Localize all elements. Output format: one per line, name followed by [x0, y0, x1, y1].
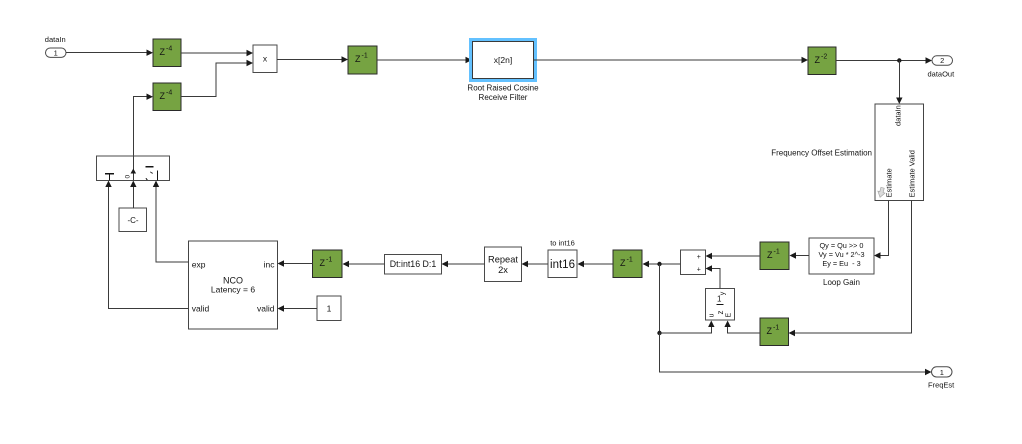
svg-text:E: E	[726, 313, 733, 318]
svg-text:Z: Z	[767, 326, 773, 336]
product block x	[253, 45, 277, 73]
gain block Loop Gain	[809, 238, 874, 287]
svg-text:1: 1	[940, 368, 944, 377]
wire product to Z-1	[277, 56, 348, 62]
svg-text:Vy = Vu * 2^-3: Vy = Vu * 2^-3	[818, 250, 864, 259]
svg-text:Estimate Valid: Estimate Valid	[907, 150, 916, 197]
wire FOE Estimate to Loop Gain	[874, 201, 889, 259]
wire -C- to switch in2	[130, 181, 136, 209]
constant -C-	[119, 208, 147, 232]
svg-text:Latency = 6: Latency = 6	[211, 285, 255, 295]
svg-text:exp: exp	[192, 260, 206, 270]
svg-text:to int16: to int16	[550, 239, 575, 248]
subsystem Frequency Offset Estimation	[771, 104, 923, 201]
wire switch output to Z-4b	[133, 94, 153, 157]
delay Z-2	[808, 47, 836, 75]
wire constant 1 to NCO valid	[278, 305, 318, 311]
outport 1 FreqEst	[928, 367, 955, 390]
svg-text:-1: -1	[774, 249, 780, 256]
wire junction down to lower junction	[659, 264, 661, 333]
inport 1 dataIn	[45, 35, 66, 57]
NCO block	[189, 241, 278, 329]
node junction lower	[657, 331, 661, 335]
delay Z-4 (upper)	[153, 39, 181, 67]
svg-text:Receive Filter: Receive Filter	[479, 93, 528, 102]
wire int16 to Repeat	[522, 261, 549, 267]
svg-text:+: +	[697, 267, 701, 274]
wire RRC to Z-2	[534, 57, 809, 63]
wire junction to enabled delay u port	[660, 321, 715, 334]
svg-text:Frequency Offset Estimation: Frequency Offset Estimation	[771, 148, 872, 157]
wire Z-4a to product in1	[181, 50, 253, 56]
delay Z-1 (top feedback)	[760, 242, 789, 270]
wire Z-1 top to sum in1	[706, 253, 761, 259]
svg-text:-4: -4	[166, 89, 172, 96]
svg-text:Z: Z	[620, 258, 626, 268]
svg-text:0: 0	[125, 175, 132, 179]
node junction on dataOut wire	[897, 58, 901, 62]
repeat block 2x	[485, 247, 522, 282]
wire NCO valid to switch in1	[105, 181, 188, 309]
wire Z-1 left to NCO inc	[278, 260, 313, 266]
wire enabled delay y to sum in2	[706, 265, 721, 288]
svg-text:Qy = Qu >> 0: Qy = Qu >> 0	[819, 241, 863, 250]
svg-text:+: +	[697, 254, 701, 261]
svg-text:Z: Z	[160, 91, 166, 101]
svg-text:dataIn: dataIn	[894, 105, 903, 126]
wire Z-1 right to int16	[578, 261, 614, 267]
svg-text:Z: Z	[355, 54, 361, 64]
svg-text:1: 1	[54, 48, 58, 57]
node junction on sum output	[657, 262, 661, 266]
svg-text:2: 2	[940, 56, 944, 65]
wire NCO exp to switch in3	[153, 181, 189, 263]
wire Z-2 to dataOut	[836, 57, 932, 63]
svg-text:z: z	[716, 311, 725, 315]
svg-text:FreqEst: FreqEst	[928, 380, 955, 389]
delay Z-1 (bottom feedback)	[760, 318, 789, 346]
outport 2 dataOut	[928, 56, 956, 79]
delay Z-1 (left chain)	[313, 250, 343, 278]
svg-text:-2: -2	[821, 53, 827, 60]
delay Z-1 (right of int16)	[613, 250, 642, 278]
svg-text:-C-: -C-	[127, 216, 138, 225]
svg-text:-1: -1	[773, 325, 779, 332]
svg-text:Z: Z	[815, 55, 821, 65]
svg-text:1: 1	[327, 304, 332, 314]
svg-text:valid: valid	[192, 303, 210, 313]
svg-text:Estimate: Estimate	[884, 168, 893, 197]
wire FOE Estimate Valid to Z-1 (bottom)	[789, 201, 912, 337]
svg-text:inc: inc	[264, 259, 276, 269]
svg-text:dataIn: dataIn	[45, 35, 66, 44]
sum block	[681, 250, 706, 275]
data type conversion int16	[548, 239, 577, 278]
wire junction down to FreqEst outport	[660, 333, 932, 375]
wire junction down to FOE dataIn	[896, 61, 902, 105]
wire sum output to Z-1 right chain	[643, 261, 681, 267]
svg-text:Ey = Eu - 3: Ey = Eu - 3	[822, 259, 860, 268]
wire Dt:int16 to Z-1 left	[343, 261, 385, 267]
svg-text:1: 1	[717, 295, 722, 304]
wire Z-4b to product in2	[181, 60, 253, 97]
svg-text:Z: Z	[320, 258, 326, 268]
svg-text:-4: -4	[166, 45, 172, 52]
wire Z-1 bottom to enabled delay E port	[724, 321, 760, 334]
wire Repeat to Dt:int16	[442, 261, 485, 267]
constant 1	[317, 296, 341, 321]
svg-text:Dt:int16 D:1: Dt:int16 D:1	[390, 259, 437, 269]
svg-text:valid: valid	[257, 303, 275, 313]
delay block Dt:int16 D:1	[385, 255, 442, 275]
svg-text:2x: 2x	[498, 265, 508, 275]
svg-text:-1: -1	[627, 257, 633, 264]
svg-text:Root Raised Cosine: Root Raised Cosine	[467, 83, 539, 92]
svg-text:-1: -1	[326, 257, 332, 264]
wire dataIn to Z-4a	[66, 50, 153, 56]
wire Z-1 to RRC filter	[377, 57, 472, 63]
enabled unit delay 1/z	[706, 289, 735, 321]
svg-text:x[2n]: x[2n]	[494, 55, 512, 65]
switch block (rotated)	[97, 156, 170, 181]
delay Z-4 (lower)	[153, 83, 181, 111]
wire Loop Gain to Z-1 (top)	[790, 252, 810, 258]
svg-text:dataOut: dataOut	[928, 70, 956, 79]
RRC filter block x[2n] (selected, blue halo)	[467, 38, 539, 102]
svg-text:Loop Gain: Loop Gain	[823, 278, 860, 287]
svg-text:Z: Z	[160, 47, 166, 57]
svg-text:u: u	[709, 314, 716, 318]
svg-text:-1: -1	[362, 53, 368, 60]
svg-text:int16: int16	[550, 259, 575, 271]
delay Z-1 (top chain)	[348, 46, 377, 74]
svg-text:Repeat: Repeat	[488, 255, 518, 265]
svg-text:Z: Z	[767, 250, 773, 260]
